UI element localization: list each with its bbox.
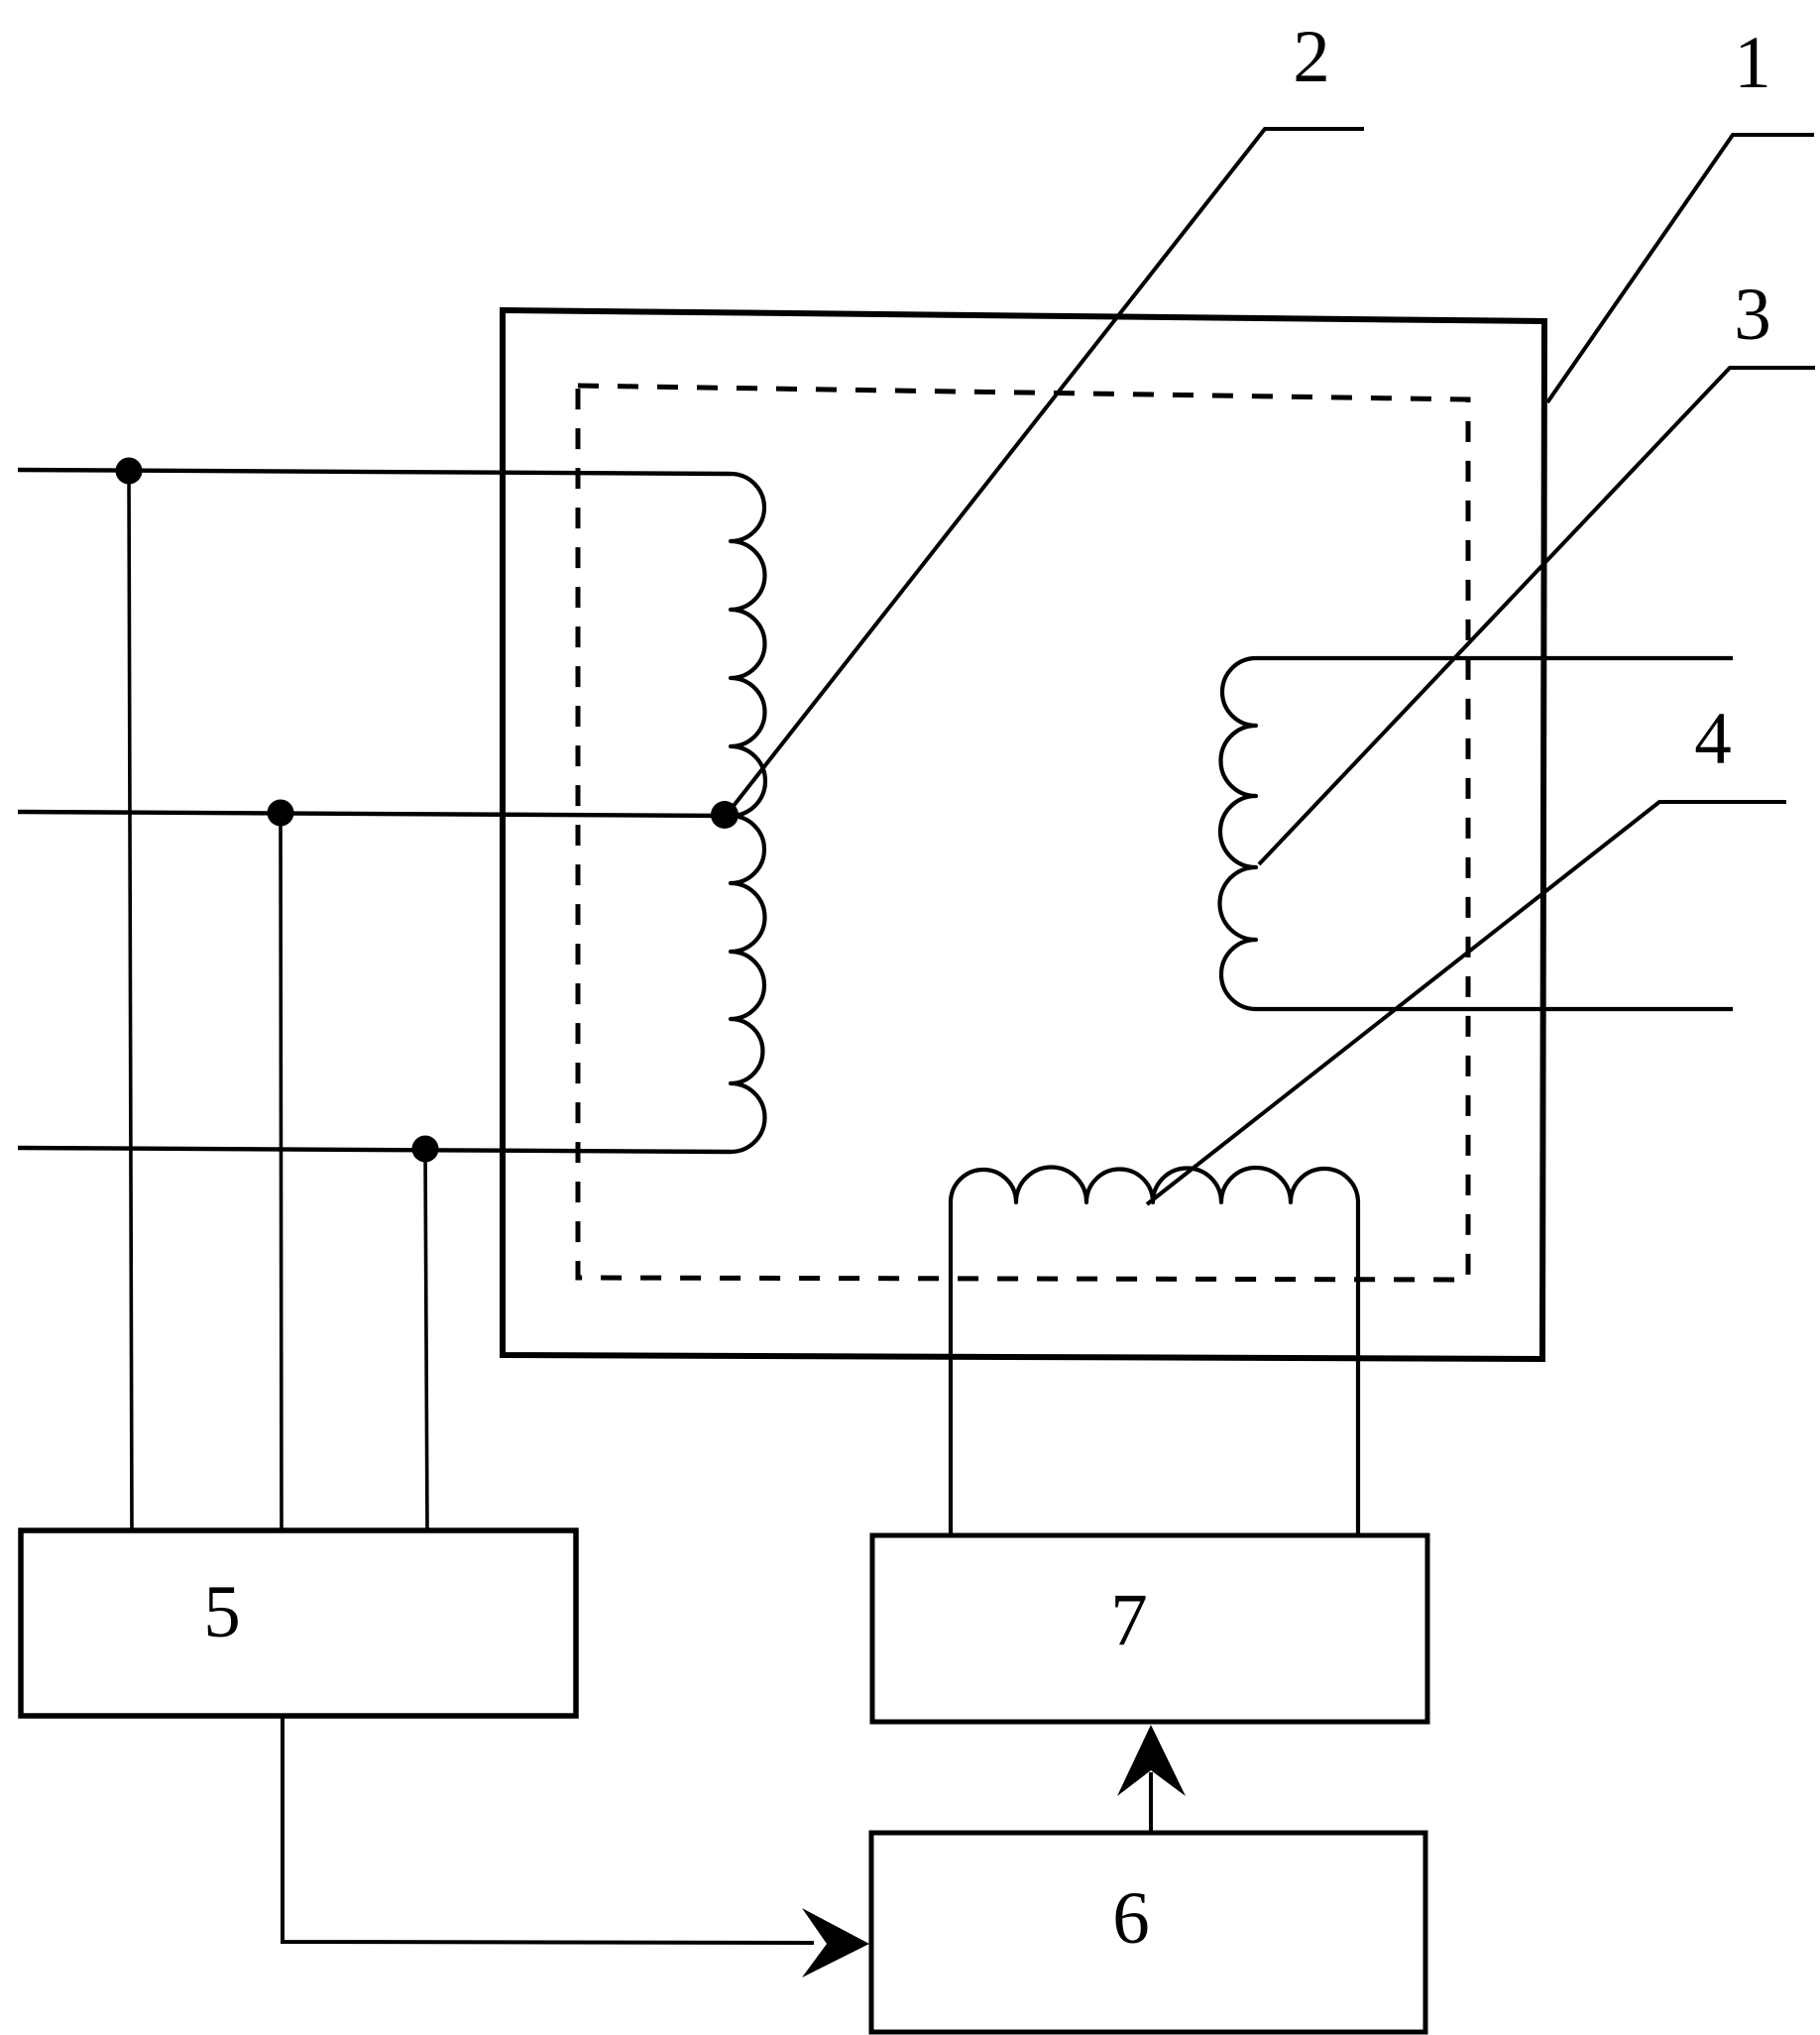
svg-text:4: 4 [1694,698,1732,780]
node B junction dot [268,800,294,827]
node A junction dot [116,458,143,485]
svg-text:1: 1 [1734,22,1771,104]
wire block 6 to block 7 [1149,1772,1153,1834]
wire phase B (middle) [18,812,727,816]
leader line 1 [1547,135,1814,402]
arrowhead into block 7 [1117,1725,1186,1796]
wire node A to block 5 [129,471,132,1532]
winding 4 (bottom coil) with leads to block 7 [951,1168,1358,1537]
dashed rotor boundary [578,386,1468,1280]
block 6 [871,1833,1425,2032]
wire phase C (bottom) [18,1148,731,1152]
wire node B to block 5 [281,813,282,1532]
svg-text:5: 5 [203,1571,241,1653]
leader line 3 [1259,368,1815,864]
svg-text:7: 7 [1110,1579,1148,1661]
wire node C to block 5 [425,1149,427,1532]
winding 2 center tap dot [711,801,739,829]
winding 2 (left tapped coil) [731,474,765,1152]
svg-text:3: 3 [1734,274,1771,356]
block 7 [872,1535,1427,1722]
node C junction dot [412,1136,439,1163]
leader line 4 [1147,802,1786,1204]
block 5 [21,1530,576,1716]
svg-text:6: 6 [1112,1877,1150,1960]
svg-text:2: 2 [1293,16,1330,98]
wire block 5 to block 6 [283,1716,814,1943]
winding 3 (right coil) with external leads [1220,658,1734,1009]
arrowhead into block 6 [802,1908,869,1978]
wire phase A (top) [18,470,731,474]
box 1 stator core outer frame [503,310,1544,1359]
leader line 2 [730,129,1364,811]
